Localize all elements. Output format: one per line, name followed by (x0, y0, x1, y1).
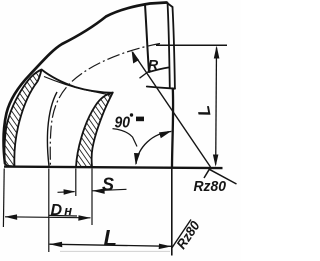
face ring top outer edge (42, 70, 113, 93)
Dn arrow right (78, 215, 91, 221)
top end face: bottom edge (147, 87, 175, 89)
roughness mark Rz80 on base line (204, 169, 237, 184)
top end face: top corner slant (167, 3, 173, 8)
arrowhead up (vertical L top) (214, 46, 220, 59)
inner silhouette arc of elbow (172, 89, 173, 167)
centre-line arc (dash-dot) (50, 44, 160, 167)
svg-text:L: L (104, 225, 117, 250)
bottom dimension line L (50, 244, 172, 246)
bore inner-left arc (47, 92, 57, 166)
svg-text:Rz80: Rz80 (194, 178, 227, 195)
outer diameter extension line left (2, 169, 5, 228)
bottom face base line (4, 167, 223, 169)
outer silhouette arc of elbow body (4, 3, 167, 164)
face ring top inner edge (44, 77, 111, 96)
label Dn underline (49, 214, 78, 217)
S dimension right tail under label (93, 189, 127, 191)
L dimension left extension line (48, 169, 50, 253)
left end cross-section crescent (hatched wall) (5, 70, 42, 167)
top end face: near right edge (168, 3, 170, 89)
arrowhead of radius line (132, 51, 139, 64)
arrowhead down (vertical L bottom) (213, 155, 219, 167)
right end cross-section crescent (hatched wall) (76, 93, 113, 168)
roughness mark Rz80 at bottom arrow (rotated) (172, 220, 191, 249)
svg-text:D: D (51, 202, 63, 219)
angle arc arrowhead upper (159, 131, 172, 138)
diameter dimension line Dn (5, 217, 91, 218)
top face plane extension line (156, 44, 227, 46)
vertical extension line through elbow centre (171, 169, 173, 256)
L bottom arrow left (49, 242, 62, 248)
top end face: left edge of face quad (145, 5, 149, 73)
angle arc arrowhead lower (134, 153, 140, 165)
small dash after 90 label (136, 117, 144, 122)
90 degree angle arc (136, 132, 171, 165)
radius line R (133, 52, 211, 167)
top end face: lower edge of face (149, 68, 168, 73)
svg-text:S: S (102, 174, 114, 194)
S dimension left extension line (75, 169, 77, 197)
svg-text:н: н (64, 203, 72, 218)
S dimension left arrow and tail (58, 191, 75, 194)
leader from 90 label to arc (113, 129, 138, 147)
svg-text:R: R (148, 57, 159, 73)
L bottom arrow right (159, 244, 172, 250)
faint scan line (60, 250, 170, 252)
label R leader (140, 70, 151, 78)
top end face: far wall edge (173, 7, 175, 89)
S dimension right extension line (91, 169, 93, 226)
vertical dimension line L (right) (215, 48, 218, 165)
Dn arrow left (5, 214, 18, 220)
